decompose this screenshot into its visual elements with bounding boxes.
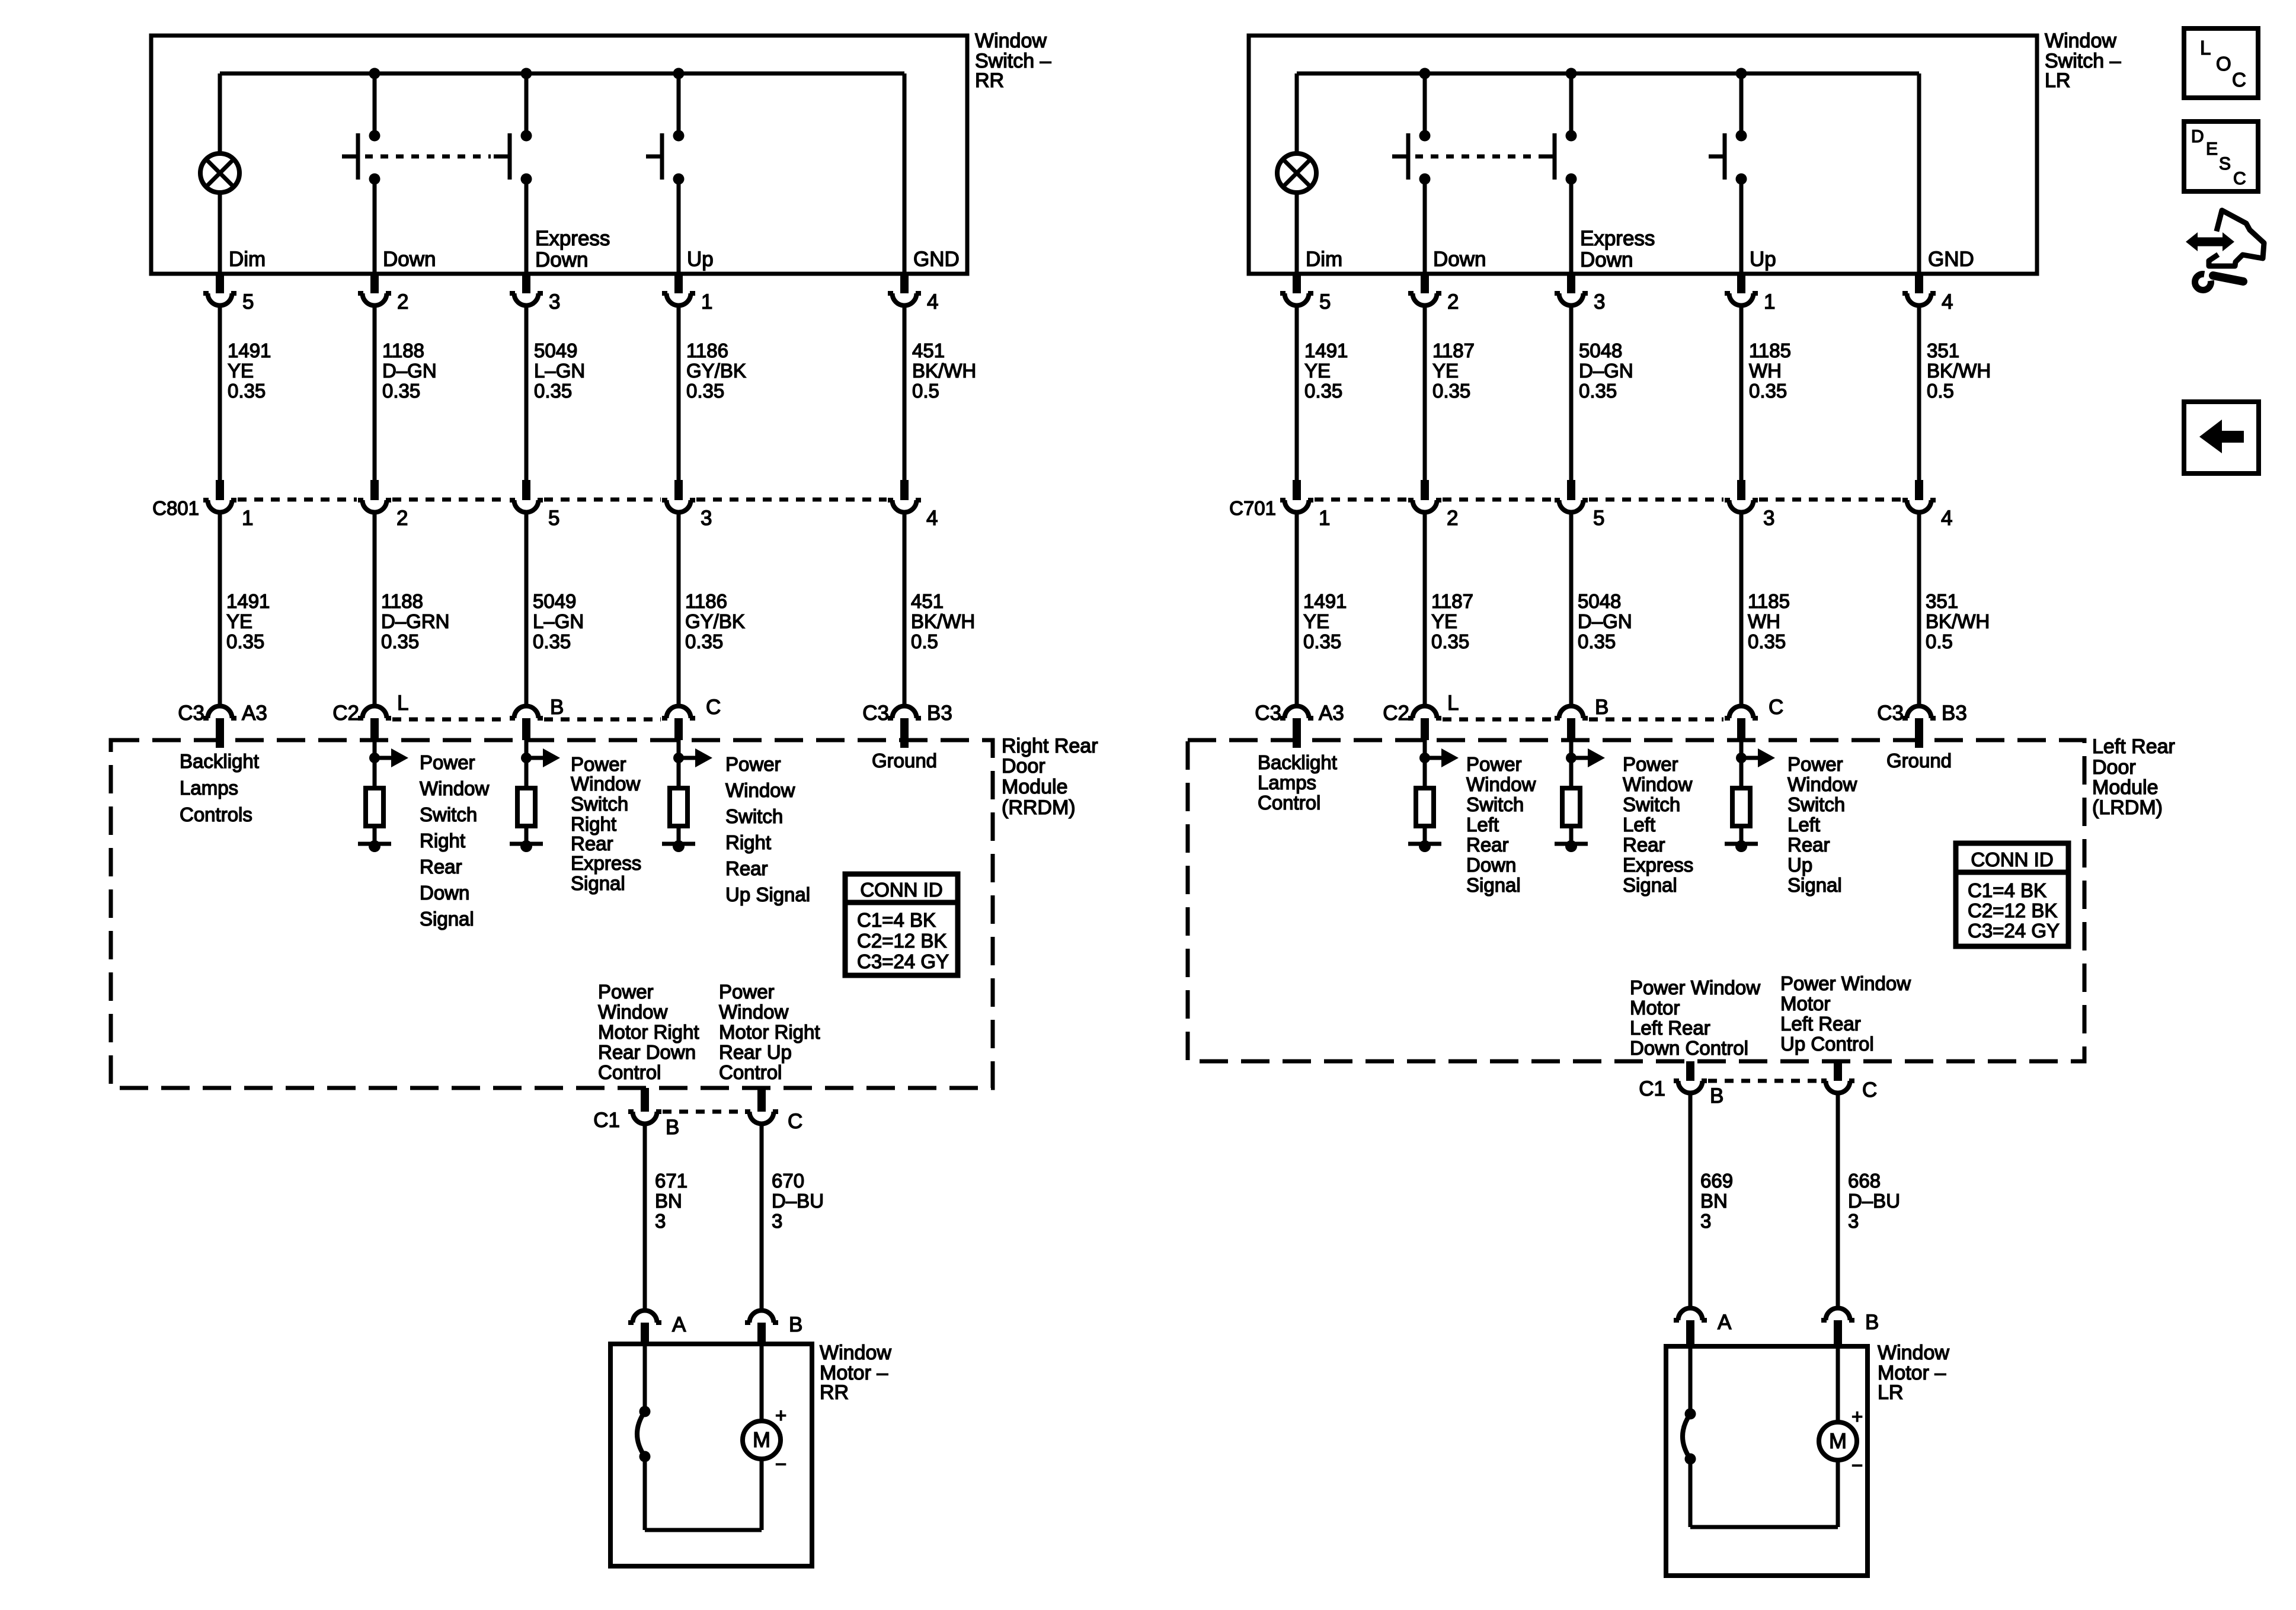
svg-text:C1: C1 — [593, 1109, 620, 1132]
svg-text:351: 351 — [1927, 340, 1959, 361]
svg-text:0.35: 0.35 — [1749, 380, 1787, 402]
svg-text:Motor Right: Motor Right — [719, 1021, 820, 1043]
svg-text:Switch: Switch — [1623, 793, 1680, 815]
svg-text:668: 668 — [1848, 1170, 1881, 1192]
svg-text:C: C — [1862, 1078, 1877, 1102]
svg-text:D–GN: D–GN — [1579, 360, 1633, 382]
svg-text:Express: Express — [571, 852, 641, 874]
svg-text:3: 3 — [701, 507, 712, 530]
svg-text:Switch: Switch — [1787, 793, 1845, 815]
svg-text:Door: Door — [1002, 755, 1045, 777]
svg-text:BK/WH: BK/WH — [912, 360, 976, 382]
svg-text:L–GN: L–GN — [533, 610, 584, 632]
svg-text:Up Control: Up Control — [1780, 1033, 1874, 1055]
svg-text:Motor: Motor — [1630, 997, 1680, 1019]
svg-text:GY/BK: GY/BK — [685, 610, 745, 632]
svg-text:Ground: Ground — [1886, 750, 1952, 772]
svg-text:CONN ID: CONN ID — [1971, 849, 2053, 870]
svg-text:+: + — [1851, 1406, 1863, 1427]
svg-text:Express: Express — [1580, 227, 1655, 250]
svg-text:Down: Down — [420, 882, 469, 904]
svg-text:0.35: 0.35 — [228, 380, 266, 402]
svg-text:YE: YE — [1303, 610, 1329, 632]
svg-text:0.5: 0.5 — [911, 630, 938, 652]
svg-text:Power: Power — [1466, 753, 1522, 775]
svg-text:0.35: 0.35 — [686, 380, 724, 402]
svg-text:Down: Down — [1433, 248, 1486, 271]
svg-text:0.35: 0.35 — [533, 630, 571, 652]
svg-text:O: O — [2216, 53, 2231, 75]
svg-text:Signal: Signal — [571, 872, 625, 894]
svg-text:0.35: 0.35 — [226, 630, 264, 652]
svg-text:C: C — [1769, 696, 1783, 719]
svg-text:4: 4 — [927, 290, 938, 313]
svg-text:Power: Power — [725, 753, 781, 775]
svg-text:0.35: 0.35 — [1431, 630, 1469, 652]
svg-text:WH: WH — [1748, 610, 1780, 632]
svg-text:B: B — [1710, 1084, 1723, 1108]
svg-text:−: − — [775, 1453, 786, 1475]
svg-text:Right Rear: Right Rear — [1002, 735, 1098, 757]
svg-text:Down Control: Down Control — [1630, 1037, 1748, 1059]
svg-text:YE: YE — [1304, 360, 1331, 382]
svg-text:C3=24 GY: C3=24 GY — [1968, 920, 2060, 942]
svg-text:Control: Control — [1258, 792, 1320, 814]
svg-text:Right: Right — [725, 831, 771, 853]
svg-text:D–GN: D–GN — [382, 360, 437, 382]
svg-text:C: C — [706, 696, 721, 719]
svg-text:4: 4 — [1941, 507, 1952, 530]
svg-text:Dim: Dim — [1306, 248, 1342, 271]
svg-text:Module: Module — [2092, 776, 2159, 799]
svg-text:Window: Window — [1787, 773, 1857, 795]
svg-text:C1=4 BK: C1=4 BK — [857, 909, 936, 931]
svg-text:Right: Right — [420, 830, 465, 852]
svg-text:Express: Express — [1623, 854, 1693, 876]
svg-text:1187: 1187 — [1432, 340, 1475, 361]
svg-text:5: 5 — [242, 290, 254, 313]
svg-text:D–GN: D–GN — [1578, 610, 1632, 632]
svg-text:5049: 5049 — [533, 590, 576, 612]
svg-text:Window: Window — [820, 1342, 891, 1364]
svg-text:0.35: 0.35 — [1432, 380, 1470, 402]
svg-text:1: 1 — [701, 290, 712, 313]
svg-text:Power: Power — [598, 981, 654, 1003]
svg-text:Rear: Rear — [1466, 834, 1509, 856]
svg-text:C: C — [2233, 169, 2246, 188]
svg-text:5048: 5048 — [1579, 340, 1622, 361]
svg-text:BN: BN — [655, 1190, 682, 1212]
svg-text:2: 2 — [1447, 507, 1458, 530]
svg-text:C3: C3 — [1877, 702, 1904, 725]
svg-text:5: 5 — [548, 507, 559, 530]
svg-text:BN: BN — [1700, 1190, 1728, 1212]
svg-text:4: 4 — [926, 507, 938, 530]
svg-text:1186: 1186 — [685, 590, 727, 612]
svg-text:Control: Control — [719, 1061, 782, 1083]
svg-text:1185: 1185 — [1748, 590, 1790, 612]
svg-text:+: + — [775, 1404, 786, 1426]
svg-text:D: D — [2191, 127, 2204, 146]
svg-text:BK/WH: BK/WH — [1926, 610, 1990, 632]
svg-text:C701: C701 — [1229, 497, 1276, 519]
svg-text:A3: A3 — [242, 702, 267, 725]
svg-text:Rear Down: Rear Down — [598, 1041, 696, 1063]
svg-text:Window: Window — [719, 1001, 789, 1023]
svg-text:C3: C3 — [178, 702, 204, 725]
svg-text:Power: Power — [1623, 753, 1678, 775]
svg-text:B: B — [666, 1116, 679, 1139]
svg-text:Ground: Ground — [872, 750, 937, 772]
svg-text:C2: C2 — [332, 702, 359, 725]
svg-text:1: 1 — [242, 507, 253, 530]
svg-text:1: 1 — [1764, 290, 1775, 313]
svg-text:Up: Up — [1750, 248, 1776, 271]
svg-text:A3: A3 — [1319, 702, 1344, 725]
svg-text:Switch: Switch — [571, 793, 628, 815]
svg-text:451: 451 — [912, 340, 945, 361]
svg-text:0.5: 0.5 — [912, 380, 939, 402]
svg-text:B3: B3 — [927, 702, 952, 725]
svg-text:C2=12 BK: C2=12 BK — [1968, 900, 2057, 921]
svg-text:M: M — [753, 1427, 770, 1452]
svg-text:1491: 1491 — [1303, 590, 1347, 612]
svg-text:LR: LR — [1878, 1381, 1903, 1404]
svg-text:Rear: Rear — [1787, 834, 1830, 856]
svg-text:Left: Left — [1787, 814, 1820, 836]
svg-text:1187: 1187 — [1431, 590, 1473, 612]
svg-text:Power Window: Power Window — [1780, 972, 1911, 994]
svg-text:L: L — [397, 692, 408, 715]
svg-text:C1: C1 — [1639, 1077, 1665, 1100]
svg-text:RR: RR — [820, 1381, 849, 1404]
svg-text:Rear: Rear — [725, 857, 768, 879]
svg-text:GY/BK: GY/BK — [686, 360, 746, 382]
svg-text:E: E — [2206, 139, 2218, 159]
svg-text:351: 351 — [1926, 590, 1958, 612]
svg-text:BK/WH: BK/WH — [911, 610, 975, 632]
svg-text:Signal: Signal — [1466, 874, 1521, 896]
svg-text:Window: Window — [975, 30, 1047, 52]
svg-text:671: 671 — [655, 1170, 687, 1192]
svg-text:B: B — [1595, 696, 1609, 719]
svg-text:0.5: 0.5 — [1927, 380, 1954, 402]
svg-text:Express: Express — [535, 227, 610, 250]
svg-text:YE: YE — [226, 610, 252, 632]
svg-text:M: M — [1829, 1429, 1847, 1453]
svg-text:B3: B3 — [1942, 702, 1967, 725]
svg-text:3: 3 — [772, 1210, 782, 1232]
svg-text:L: L — [2200, 37, 2211, 59]
svg-text:Backlight: Backlight — [1258, 751, 1337, 773]
svg-text:1188: 1188 — [381, 590, 423, 612]
svg-text:CONN ID: CONN ID — [860, 879, 942, 901]
svg-text:C3: C3 — [862, 702, 889, 725]
svg-text:L: L — [1447, 692, 1459, 715]
svg-text:2: 2 — [397, 290, 408, 313]
svg-text:Up: Up — [1787, 854, 1812, 876]
svg-text:Rear: Rear — [420, 856, 462, 878]
svg-text:Signal: Signal — [1787, 874, 1842, 896]
svg-text:0.35: 0.35 — [685, 630, 723, 652]
svg-text:1491: 1491 — [1304, 340, 1348, 361]
svg-text:Power: Power — [420, 751, 475, 773]
svg-text:Signal: Signal — [1623, 874, 1677, 896]
svg-text:YE: YE — [1432, 360, 1459, 382]
svg-text:Window: Window — [1878, 1342, 1949, 1364]
svg-text:451: 451 — [911, 590, 944, 612]
svg-text:Window: Window — [420, 777, 490, 799]
svg-text:0.5: 0.5 — [1926, 630, 1953, 652]
svg-text:Motor: Motor — [1780, 993, 1830, 1014]
svg-text:Controls: Controls — [180, 804, 252, 825]
svg-text:Rear Up: Rear Up — [719, 1041, 792, 1063]
svg-text:3: 3 — [1763, 507, 1774, 530]
svg-text:Left Rear: Left Rear — [2092, 735, 2175, 758]
svg-text:Rear: Rear — [571, 833, 613, 854]
svg-text:1185: 1185 — [1749, 340, 1791, 361]
svg-text:C2=12 BK: C2=12 BK — [857, 930, 946, 952]
svg-text:Up Signal: Up Signal — [725, 884, 810, 905]
svg-text:5048: 5048 — [1578, 590, 1621, 612]
svg-text:Down: Down — [1466, 854, 1516, 876]
svg-text:1: 1 — [1319, 507, 1330, 530]
svg-text:C1=4 BK: C1=4 BK — [1968, 879, 2046, 901]
svg-text:3: 3 — [549, 290, 560, 313]
svg-text:2: 2 — [1447, 290, 1459, 313]
svg-text:Left Rear: Left Rear — [1780, 1013, 1861, 1035]
svg-text:0.35: 0.35 — [1748, 630, 1786, 652]
svg-text:Control: Control — [598, 1061, 661, 1083]
svg-text:B: B — [1865, 1311, 1879, 1334]
svg-text:Window: Window — [598, 1001, 668, 1023]
svg-text:C3=24 GY: C3=24 GY — [857, 950, 949, 972]
svg-text:Left: Left — [1466, 814, 1499, 836]
svg-text:Window: Window — [725, 779, 795, 801]
svg-text:Left: Left — [1623, 814, 1655, 836]
svg-text:C2: C2 — [1383, 702, 1409, 725]
svg-text:4: 4 — [1942, 290, 1953, 313]
svg-text:3: 3 — [1848, 1210, 1859, 1232]
svg-text:Up: Up — [687, 248, 714, 271]
svg-text:Down: Down — [535, 248, 588, 271]
svg-text:Switch: Switch — [420, 804, 477, 825]
svg-text:Module: Module — [1002, 776, 1068, 798]
svg-text:Door: Door — [2092, 756, 2136, 779]
svg-text:Motor Right: Motor Right — [598, 1021, 699, 1043]
svg-text:1188: 1188 — [382, 340, 424, 361]
svg-text:Power: Power — [719, 981, 775, 1003]
svg-text:(LRDM): (LRDM) — [2092, 796, 2163, 819]
svg-text:Power: Power — [571, 753, 626, 775]
svg-text:Window: Window — [2045, 30, 2116, 52]
svg-text:S: S — [2219, 154, 2231, 174]
svg-text:Rear: Rear — [1623, 834, 1665, 856]
svg-text:0.35: 0.35 — [1303, 630, 1341, 652]
svg-text:A: A — [1718, 1311, 1732, 1334]
svg-text:Backlight: Backlight — [180, 750, 259, 772]
svg-text:Down: Down — [383, 248, 436, 271]
svg-text:Window: Window — [1466, 773, 1536, 795]
svg-text:Right: Right — [571, 813, 616, 835]
svg-text:B: B — [789, 1313, 802, 1336]
svg-text:D–BU: D–BU — [772, 1190, 824, 1212]
svg-text:(RRDM): (RRDM) — [1002, 796, 1076, 819]
svg-text:0.35: 0.35 — [534, 380, 572, 402]
svg-text:D–BU: D–BU — [1848, 1190, 1900, 1212]
svg-text:C: C — [2232, 69, 2246, 91]
svg-text:YE: YE — [1431, 610, 1457, 632]
svg-text:B: B — [550, 696, 564, 719]
svg-text:0.35: 0.35 — [1579, 380, 1617, 402]
svg-text:Window: Window — [1623, 773, 1693, 795]
svg-text:0.35: 0.35 — [1578, 630, 1616, 652]
svg-text:C801: C801 — [152, 497, 199, 519]
svg-text:BK/WH: BK/WH — [1927, 360, 1991, 382]
svg-text:1186: 1186 — [686, 340, 728, 361]
svg-text:A: A — [672, 1313, 686, 1336]
svg-text:−: − — [1851, 1454, 1863, 1476]
svg-text:YE: YE — [228, 360, 254, 382]
svg-text:Left Rear: Left Rear — [1630, 1017, 1710, 1039]
svg-text:0.35: 0.35 — [1304, 380, 1342, 402]
svg-text:0.35: 0.35 — [381, 630, 419, 652]
svg-text:LR: LR — [2045, 69, 2070, 92]
svg-text:1491: 1491 — [226, 590, 270, 612]
svg-text:RR: RR — [975, 69, 1004, 92]
svg-text:Signal: Signal — [420, 908, 474, 930]
svg-text:GND: GND — [913, 248, 960, 271]
svg-text:0.35: 0.35 — [382, 380, 420, 402]
svg-text:L–GN: L–GN — [534, 360, 585, 382]
svg-text:Power: Power — [1787, 753, 1843, 775]
svg-text:Window: Window — [571, 773, 641, 795]
svg-text:5: 5 — [1319, 290, 1331, 313]
svg-text:Lamps: Lamps — [1258, 772, 1316, 793]
svg-text:C: C — [788, 1110, 802, 1133]
svg-text:3: 3 — [1594, 290, 1605, 313]
svg-text:Down: Down — [1580, 248, 1633, 271]
svg-text:C3: C3 — [1255, 702, 1281, 725]
svg-text:3: 3 — [655, 1210, 666, 1232]
svg-text:2: 2 — [396, 507, 408, 530]
svg-text:Power Window: Power Window — [1630, 977, 1760, 998]
svg-text:Switch: Switch — [725, 805, 783, 827]
svg-text:WH: WH — [1749, 360, 1782, 382]
svg-text:GND: GND — [1928, 248, 1974, 271]
svg-text:Lamps: Lamps — [180, 777, 238, 799]
svg-text:Dim: Dim — [229, 248, 266, 271]
svg-text:D–GRN: D–GRN — [381, 610, 450, 632]
svg-text:3: 3 — [1700, 1210, 1711, 1232]
svg-text:1491: 1491 — [228, 340, 271, 361]
svg-text:5: 5 — [1593, 507, 1604, 530]
svg-text:Switch: Switch — [1466, 793, 1524, 815]
svg-text:669: 669 — [1700, 1170, 1733, 1192]
svg-text:5049: 5049 — [534, 340, 577, 361]
svg-text:670: 670 — [772, 1170, 804, 1192]
